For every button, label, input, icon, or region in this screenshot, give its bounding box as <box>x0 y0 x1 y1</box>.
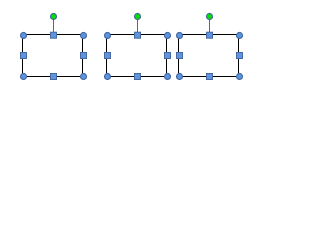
shape 1 middle-right handle <box>81 53 87 59</box>
shape 3 rotation stem <box>209 20 211 33</box>
shape 1 bottom-middle handle <box>51 74 57 80</box>
shape 3 bottom-middle handle <box>207 74 213 80</box>
shape 3 middle-right handle <box>237 53 243 59</box>
shape 3 bottom-right corner handle <box>237 74 243 80</box>
shape 3 rectangle outline <box>179 35 239 77</box>
shape 3 rotation handle <box>207 14 213 20</box>
shape 1 rotation handle <box>51 14 57 20</box>
shape 2 top-middle handle <box>135 32 141 38</box>
shape 2 middle-left handle <box>105 53 111 59</box>
shape 1 top-left corner handle <box>21 33 27 39</box>
shape 2 top-right corner handle <box>165 33 171 39</box>
shape 1 top-middle handle <box>51 32 57 38</box>
shape 2 bottom-middle handle <box>135 74 141 80</box>
shape 3 middle-left handle <box>177 53 183 59</box>
shape 1 rectangle outline <box>23 35 83 77</box>
shape 2 bottom-right corner handle <box>165 74 171 80</box>
shape 1 bottom-left corner handle <box>21 74 27 80</box>
shape 2 middle-right handle <box>165 53 171 59</box>
shape 2 rectangle outline <box>107 35 167 77</box>
shape 1 bottom-right corner handle <box>81 74 87 80</box>
shape 3 top-middle handle <box>207 32 213 38</box>
shape 2 rotation stem <box>137 20 139 33</box>
shape 2 bottom-left corner handle <box>105 74 111 80</box>
shape 1 top-right corner handle <box>81 33 87 39</box>
shape 1 middle-left handle <box>21 53 27 59</box>
shape 2 top-left corner handle <box>105 33 111 39</box>
shape 1 rotation stem <box>53 20 55 33</box>
shape 3 top-right corner handle <box>237 33 243 39</box>
shape 3 bottom-left corner handle <box>177 74 183 80</box>
shape 2 rotation handle <box>135 14 141 20</box>
shape 3 top-left corner handle <box>177 33 183 39</box>
